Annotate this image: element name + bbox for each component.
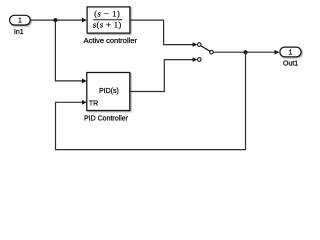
fraction bar (93, 19, 122, 21)
wire Active controller to switch input 1 (130, 20, 194, 44)
arrowhead into PID input 1 (82, 79, 87, 84)
svg-text:(s − 1): (s − 1) (94, 8, 120, 18)
svg-text:PID(s): PID(s) (99, 88, 119, 95)
svg-text:Out1: Out1 (283, 61, 298, 68)
arrowhead into TR port (82, 100, 87, 105)
svg-text:In1: In1 (14, 29, 24, 36)
manual switch terminal input 1 (198, 43, 202, 47)
svg-text:1: 1 (18, 18, 22, 25)
outport Out1 (280, 47, 301, 57)
svg-text:1: 1 (288, 49, 292, 56)
manual switch terminal input 2 (198, 58, 202, 62)
arrowhead at switch input 2 (193, 57, 198, 62)
svg-text:Active controller: Active controller (84, 36, 138, 45)
feedback wire junction to TR port (56, 52, 246, 149)
wire branch to PID input (55, 20, 83, 81)
wire switch output to Out1 (213, 51, 275, 53)
svg-text:s(s + 1): s(s + 1) (93, 19, 122, 29)
svg-text:TR: TR (89, 100, 98, 107)
manual switch output terminal (210, 50, 214, 54)
junction node on output wire (244, 50, 248, 54)
wire In1 to Active controller (30, 19, 83, 21)
arrowhead at switch input 1 (193, 42, 198, 47)
transfer function block U1 (Active controller) (87, 7, 130, 33)
inport In1 (10, 15, 31, 25)
junction node on input wire (53, 18, 57, 22)
arrowhead into Active controller (82, 18, 87, 23)
switch lever (201, 46, 210, 51)
wire PID output to switch input 2 (130, 60, 194, 92)
arrowhead into Out1 (275, 50, 280, 55)
svg-text:PID Controller: PID Controller (84, 116, 129, 123)
PID controller block (87, 73, 130, 111)
